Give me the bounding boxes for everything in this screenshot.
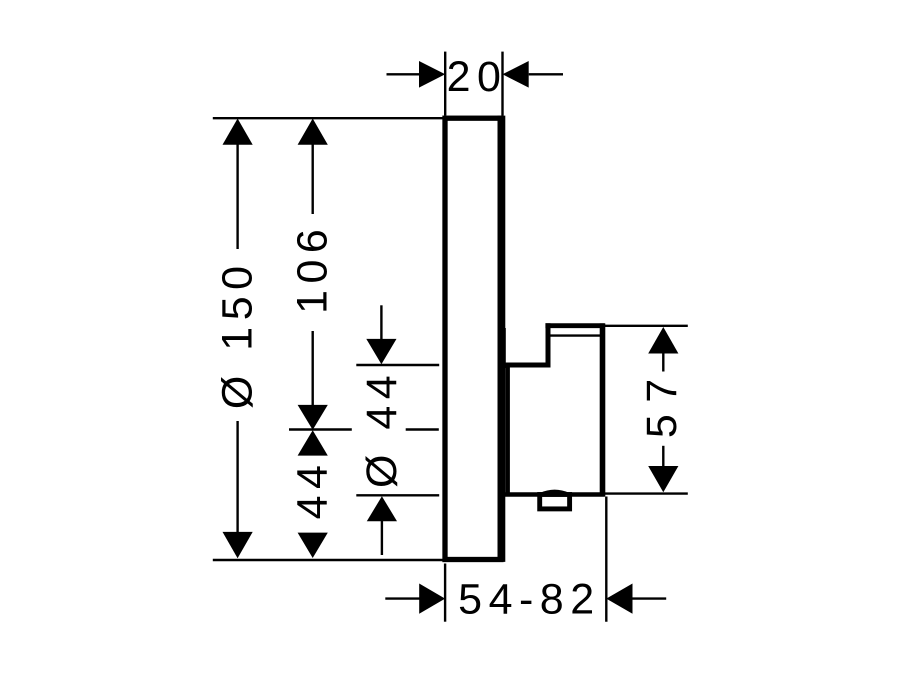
dimension D44 extension line top <box>356 364 439 366</box>
dimension D150 line upper <box>236 143 238 249</box>
dimension 44 arrow up (bowtie bottom) <box>298 430 328 455</box>
dimension 20 extension line left <box>444 52 446 116</box>
dimension D150 arrow up <box>223 119 253 145</box>
dimension 57 extension line top <box>605 325 688 327</box>
dimension D150 arrow down <box>223 532 253 558</box>
centerline right segment <box>406 428 439 430</box>
dimension D150 line lower <box>236 421 238 534</box>
dimension 57 line lower <box>662 446 664 468</box>
svg-text:57: 57 <box>638 367 686 438</box>
bottom tab bump arc <box>541 491 569 494</box>
knob lip line <box>551 334 601 336</box>
dimension 57 arrow up <box>648 327 678 354</box>
dimension 20 leader right <box>529 73 563 75</box>
extension line bottom left (plate bottom) <box>213 559 444 561</box>
dimension 54-82 extension line left <box>444 564 446 622</box>
dimension 106 line lower <box>312 331 314 406</box>
svg-text:54-82: 54-82 <box>458 576 600 624</box>
dimension 20 extension line right <box>501 52 503 116</box>
dimension 106 line upper <box>312 143 314 214</box>
svg-text:106: 106 <box>289 223 337 314</box>
dimension D44 top leader <box>380 305 382 339</box>
control knob (upper stop ring) <box>545 323 604 367</box>
dimension 54-82 extension line right <box>605 497 607 622</box>
dimension 54-82 arrow left <box>419 584 445 614</box>
dimension D44 arrow up <box>367 496 397 521</box>
dimension 44 arrow down <box>298 533 328 558</box>
dimension 20 arrow right <box>503 61 529 88</box>
extension line top left (plate top) <box>213 117 444 119</box>
bottom tab <box>540 495 570 509</box>
svg-text:44: 44 <box>289 459 337 520</box>
faceplate (wall escutcheon plate, side view) <box>445 116 501 562</box>
dimension 54-82 leader left <box>385 597 420 599</box>
dimension D44 arrow down <box>366 339 396 364</box>
dimension 20 arrow left <box>419 61 445 88</box>
centerline left segment <box>289 428 352 430</box>
dimension 57 extension line bottom <box>605 492 688 494</box>
svg-text:Ø 44: Ø 44 <box>358 369 406 488</box>
svg-text:20: 20 <box>447 53 508 101</box>
dimension 106 arrow down (bowtie top) <box>298 405 328 430</box>
dimension 106 arrow up <box>298 119 328 145</box>
dimension 20 leader left <box>387 73 421 75</box>
dimension D44 bottom leader <box>381 520 383 555</box>
dimension D44 extension line bottom <box>356 494 439 496</box>
sleeve edge behind plate <box>503 328 505 368</box>
valve body (cartridge housing) <box>503 323 605 496</box>
dimension 57 line upper <box>662 352 664 372</box>
dimension 57 arrow down <box>648 466 678 492</box>
dimension 54-82 arrow right <box>606 584 632 614</box>
svg-text:Ø 150: Ø 150 <box>214 259 262 409</box>
dimension 54-82 leader right <box>633 597 667 599</box>
